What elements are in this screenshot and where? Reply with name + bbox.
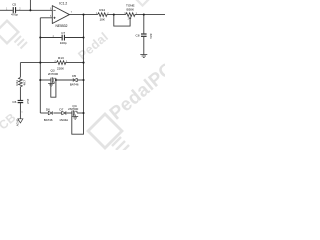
ground C8: [140, 55, 147, 58]
ground under Q3: [48, 84, 54, 87]
svg-text:BAT46: BAT46: [44, 118, 53, 122]
right rail junction dots: [82, 36, 84, 38]
svg-text:7: 7: [71, 12, 73, 14]
left rail junction dots: [39, 36, 41, 38]
svg-text:1: 1: [21, 112, 23, 114]
svg-text:C8: C8: [136, 33, 140, 37]
node junction dots output net: [82, 14, 84, 16]
wire R13 row left to corner: [20, 62, 40, 64]
capacitor C7: [53, 31, 67, 45]
wire C7 row left: [40, 37, 61, 39]
wire R13 to right rail: [65, 62, 83, 64]
svg-text:2N7000: 2N7000: [48, 72, 59, 76]
svg-text:D7: D7: [59, 107, 63, 111]
capacitor C6: [12, 99, 30, 104]
wire Q3 row left: [40, 79, 51, 81]
wire D7 to Q4: [67, 112, 72, 114]
wire R11 to C6: [19, 87, 21, 100]
svg-text:2N7000: 2N7000: [68, 107, 79, 111]
svg-text:1N34A: 1N34A: [59, 118, 68, 122]
capacitor C8: [136, 33, 153, 39]
wire C5 to op-amp minus input: [16, 9, 52, 11]
ground AGND triangle: [15, 112, 23, 127]
watermark logo diamond top-edge right: [130, 0, 154, 6]
svg-text:D5: D5: [72, 74, 76, 78]
wire C8 branch down: [143, 15, 145, 34]
diode D7 1N34A: [59, 107, 68, 122]
wire Q3 to D5: [56, 79, 73, 81]
diode D5 BAT46: [70, 74, 79, 87]
diode D6 BAT46: [44, 107, 53, 122]
potentiometer TONE B50K: [124, 4, 137, 21]
wire corner down to R11: [19, 63, 21, 78]
wire pot to right edge: [135, 14, 165, 16]
svg-text:AGND: AGND: [15, 119, 19, 127]
resistor R14: [96, 8, 110, 22]
wire right rail vertical: [83, 15, 85, 113]
svg-text:220K: 220K: [57, 66, 65, 70]
watermark logo diamond top-left: [0, 21, 27, 49]
svg-text:PedalPCB: PedalPCB: [0, 110, 19, 150]
svg-text:100p: 100p: [60, 41, 67, 45]
svg-text:C6: C6: [12, 100, 16, 104]
wire C7 row right: [65, 37, 84, 39]
svg-text:Pedal: Pedal: [75, 30, 111, 63]
op-amp IC1.2: [50, 2, 73, 28]
svg-text:B50K: B50K: [127, 7, 136, 11]
wire pot wiper loop: [114, 15, 130, 27]
wire left rail vertical: [39, 18, 41, 113]
wire input left to C5: [0, 9, 13, 11]
wire R14 to tone pot: [107, 14, 126, 16]
wire Q4 to right rail: [77, 112, 84, 114]
svg-text:10K: 10K: [99, 18, 105, 22]
svg-text:BAT46: BAT46: [70, 83, 79, 87]
svg-text:R13: R13: [58, 56, 64, 60]
transistor Q4 mosfet: [68, 104, 79, 117]
wire Q3 gate loop: [51, 80, 56, 97]
svg-text:PedalPCB: PedalPCB: [105, 49, 165, 123]
svg-text:R14: R14: [99, 8, 105, 12]
watermark logo diamond bottom-center: [88, 114, 129, 154]
svg-text:IC1.2: IC1.2: [59, 2, 67, 6]
node Q3 drain junction: [55, 79, 57, 81]
wire op-amp output: [69, 14, 97, 16]
node junction dot input: [29, 9, 31, 11]
svg-text:R11: R11: [15, 80, 19, 86]
wire op-amp plus input to left rail: [40, 17, 52, 19]
wire R13 row junction to resistor: [40, 62, 56, 64]
wire bottom row left rail to D6: [40, 112, 48, 114]
svg-text:4K7: 4K7: [23, 80, 27, 86]
svg-text:470p: 470p: [11, 13, 18, 17]
svg-text:C7: C7: [61, 31, 65, 35]
svg-text:D6: D6: [46, 107, 50, 111]
wire up from node at top: [29, 0, 31, 10]
wire C6 to ground: [19, 103, 21, 119]
resistor R13: [55, 56, 68, 70]
svg-text:NE5532: NE5532: [56, 24, 68, 28]
svg-text:2u2: 2u2: [26, 99, 30, 104]
wire C8 to ground: [143, 37, 145, 55]
ground under Q4: [72, 117, 78, 120]
resistor R11 vertical: [15, 77, 27, 87]
transistor Q3 mosfet: [48, 69, 59, 84]
svg-text:C5: C5: [12, 2, 16, 6]
svg-text:22n: 22n: [149, 34, 153, 39]
wire Q4 gate loop: [72, 113, 84, 134]
wire D6 to D7: [53, 112, 62, 114]
capacitor C5: [6, 2, 21, 16]
wire D5 to right rail: [77, 79, 83, 81]
